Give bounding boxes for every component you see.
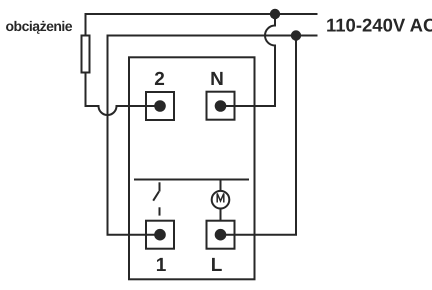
- wire: second supply line (net N-in): [108, 35, 318, 37]
- terminal 1 square: [146, 221, 174, 249]
- internal separator line: [134, 179, 249, 181]
- junction dot on second supply line: [291, 30, 301, 40]
- svg-text:110-240V AC: 110-240V AC: [326, 15, 432, 36]
- motor M upper stub: [220, 180, 222, 192]
- terminal 1 contact dot: [154, 229, 166, 241]
- resistor (obciazenie / load): [82, 36, 90, 73]
- svg-text:1: 1: [156, 255, 167, 276]
- motor M circle: [212, 191, 230, 209]
- svg-text:obciążenie: obciążenie: [6, 18, 73, 34]
- switch S (internal contact) upper stub: [159, 182, 161, 191]
- wire: from junction on second line down to terminal L: [221, 35, 297, 235]
- wire: vertical from second supply line down to terminal 1: [108, 35, 161, 235]
- device box (controller outline): [129, 57, 255, 279]
- terminal 2 square: [146, 92, 174, 120]
- motor M letter: [217, 193, 224, 202]
- motor M lower stub to terminal L: [220, 209, 222, 221]
- wire: resistor bottom lead down to terminal 2, with hop over crossing wire: [86, 74, 161, 116]
- terminal L square: [207, 221, 235, 249]
- svg-text:N: N: [210, 69, 224, 90]
- svg-text:2: 2: [154, 69, 165, 90]
- wire: top supply line (net L-in): [86, 13, 318, 15]
- wire: top line down to load resistor: [85, 13, 87, 35]
- terminal 2 contact dot: [154, 100, 166, 112]
- switch S lower dash to terminal 1: [159, 207, 161, 215]
- terminal N contact dot: [215, 100, 227, 112]
- terminal N square: [207, 92, 235, 120]
- svg-text:L: L: [211, 255, 223, 276]
- switch S blade: [153, 192, 159, 201]
- junction dot on top supply line: [270, 9, 280, 19]
- terminal L contact dot: [215, 229, 227, 241]
- wire: from junction on top line, hop over second line, down to terminal N: [221, 14, 276, 106]
